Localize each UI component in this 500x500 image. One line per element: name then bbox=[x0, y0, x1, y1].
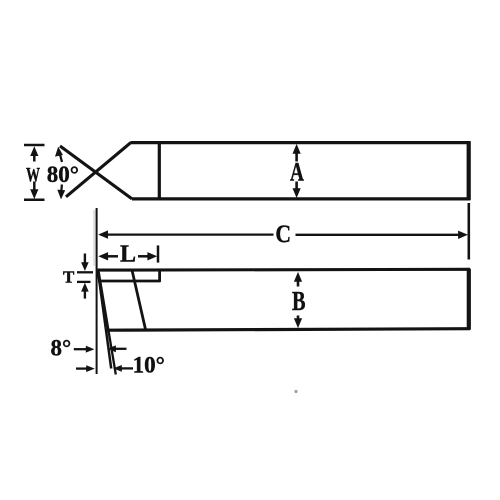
svg-text:B: B bbox=[292, 287, 306, 316]
svg-text:80°: 80° bbox=[47, 162, 79, 187]
top view: lower chamfer edge extended to upper left bbox=[60, 146, 132, 199]
side view: 8 degree front clearance slant bbox=[98, 271, 111, 368]
8 degree opposing left arrow bbox=[107, 345, 126, 352]
dimension B down arrow bbox=[294, 316, 302, 329]
10 degree opposing left arrow bbox=[113, 365, 133, 372]
top view: body top edge bbox=[131, 141, 471, 144]
dimension C right segment with right arrow bbox=[296, 231, 468, 239]
dimension A down arrow bbox=[293, 182, 301, 199]
side view: body top edge bbox=[96, 268, 470, 272]
svg-text:T: T bbox=[63, 267, 75, 286]
dimension L right tick bbox=[157, 245, 160, 262]
side view: brazed tip bottom line bbox=[98, 280, 161, 283]
dimension T bottom tick bbox=[77, 281, 91, 283]
svg-text:L: L bbox=[120, 241, 136, 267]
dimension L right segment with right arrow bbox=[138, 252, 157, 260]
8 degree leader with right arrow bbox=[74, 346, 95, 353]
top view: body bottom edge bbox=[132, 197, 470, 200]
dimension C left segment with left arrow bbox=[98, 230, 273, 238]
top view: upper chamfer edge extended to lower left bbox=[66, 143, 131, 197]
svg-text:A: A bbox=[290, 158, 304, 186]
dimension W top tick bbox=[24, 144, 45, 147]
10 degree leader with right arrow bbox=[76, 365, 95, 372]
side view: body bottom edge bbox=[105, 329, 470, 331]
svg-text:8°: 8° bbox=[51, 336, 72, 361]
dimension T up arrow bbox=[81, 283, 89, 299]
dimension B up arrow bbox=[294, 272, 302, 287]
side view: braze slant line bbox=[132, 271, 145, 329]
top view: vertical divider line bbox=[158, 141, 161, 200]
dimension L left segment with left arrow bbox=[98, 252, 118, 260]
svg-text:W: W bbox=[26, 164, 40, 186]
dimension T down arrow bbox=[81, 254, 89, 272]
svg-text:C: C bbox=[275, 221, 291, 249]
left extension line bbox=[96, 208, 98, 374]
right extension line bbox=[467, 203, 470, 260]
80 degree angle up arrow bbox=[55, 147, 63, 162]
svg-text:10°: 10° bbox=[133, 352, 165, 377]
dimension T top tick bbox=[77, 271, 93, 273]
top view: body right edge bbox=[467, 141, 471, 200]
dimension A up arrow bbox=[293, 144, 301, 162]
scan artifact speck bbox=[294, 390, 297, 393]
dimension W down arrow bbox=[30, 182, 38, 200]
side view: body right edge bbox=[467, 269, 471, 330]
dimension W bottom tick bbox=[24, 199, 45, 202]
side view: 10 degree front clearance slant bbox=[99, 271, 116, 374]
dimension W up arrow bbox=[30, 146, 38, 161]
80 degree angle down arrow bbox=[57, 185, 65, 200]
scan artifact gray streak bbox=[93, 210, 95, 266]
side view: brazed tip right vertical bbox=[158, 270, 161, 282]
